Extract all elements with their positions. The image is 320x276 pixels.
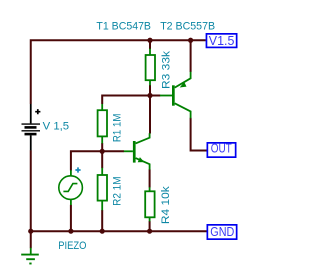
svg-text:T2 BC557B: T2 BC557B	[160, 21, 215, 33]
transistor T1	[124, 133, 150, 169]
svg-text:GND: GND	[210, 225, 234, 239]
node R1 R2 T1 base piezo	[100, 149, 105, 154]
label R2 1M	[112, 176, 124, 206]
resistor R3	[146, 49, 155, 86]
battery V 1,5	[22, 104, 41, 150]
node top rail T2 emitter	[188, 38, 193, 43]
wire base node down to R2	[101, 151, 103, 168]
svg-text:R3 33k: R3 33k	[160, 50, 172, 89]
ground	[21, 248, 39, 264]
label V 1,5	[43, 120, 70, 132]
node bottom rail ground	[28, 229, 33, 234]
wire T1 emitter to R4	[149, 169, 151, 187]
wire T2 collector to OUT	[191, 118, 207, 151]
node bottom rail R2	[100, 229, 105, 234]
wire bottom rail	[31, 230, 207, 232]
transistor T2	[160, 72, 191, 119]
wire R3 top lead	[149, 40, 151, 49]
svg-text:R2 1M: R2 1M	[112, 176, 124, 206]
wire node to T2 base	[150, 95, 161, 97]
port OUT	[207, 142, 235, 157]
node R3 T1 collector T2 base	[147, 93, 152, 98]
wire node down to T1 collector	[149, 96, 151, 134]
wire base node to piezo top	[71, 151, 102, 170]
wire piezo bottom to rail	[70, 205, 72, 231]
resistor R2	[98, 168, 107, 211]
label PIEZO	[58, 240, 87, 252]
wire R1 top to node	[102, 96, 150, 105]
wire R1 bottom to base node	[101, 143, 103, 151]
port V1.5	[206, 34, 236, 48]
port GND	[207, 225, 236, 239]
svg-text:PIEZO: PIEZO	[58, 240, 87, 252]
wire corner to ground	[30, 231, 32, 248]
resistor R1	[98, 104, 107, 143]
wire battery bottom to corner	[30, 150, 32, 231]
node bottom rail R4	[147, 229, 152, 234]
resistor R4	[145, 187, 154, 221]
wire base node to T1 base	[102, 150, 124, 152]
label R1 1M	[112, 114, 124, 143]
wire R4 bottom to rail	[149, 221, 151, 231]
piezo plus mark	[75, 167, 80, 172]
label T2 BC557B	[160, 21, 215, 33]
label T1 BC547B	[96, 21, 151, 33]
node bottom rail piezo	[68, 229, 73, 234]
svg-text:V 1,5: V 1,5	[43, 120, 70, 132]
wire R3 bottom lead	[149, 85, 151, 96]
svg-text:R4 10k: R4 10k	[160, 186, 172, 224]
svg-text:R1 1M: R1 1M	[112, 114, 124, 143]
wire T2 emitter to rail	[190, 40, 192, 72]
svg-text:OUT: OUT	[211, 142, 232, 156]
piezo transducer	[59, 170, 83, 205]
svg-text:T1 BC547B: T1 BC547B	[96, 21, 151, 33]
wire top rail	[31, 40, 206, 104]
wire R2 bottom to rail	[101, 210, 103, 231]
svg-text:V1.5: V1.5	[209, 34, 235, 48]
node top rail R3	[147, 38, 152, 43]
label R3 33k	[160, 50, 172, 89]
label R4 10k	[160, 186, 172, 224]
